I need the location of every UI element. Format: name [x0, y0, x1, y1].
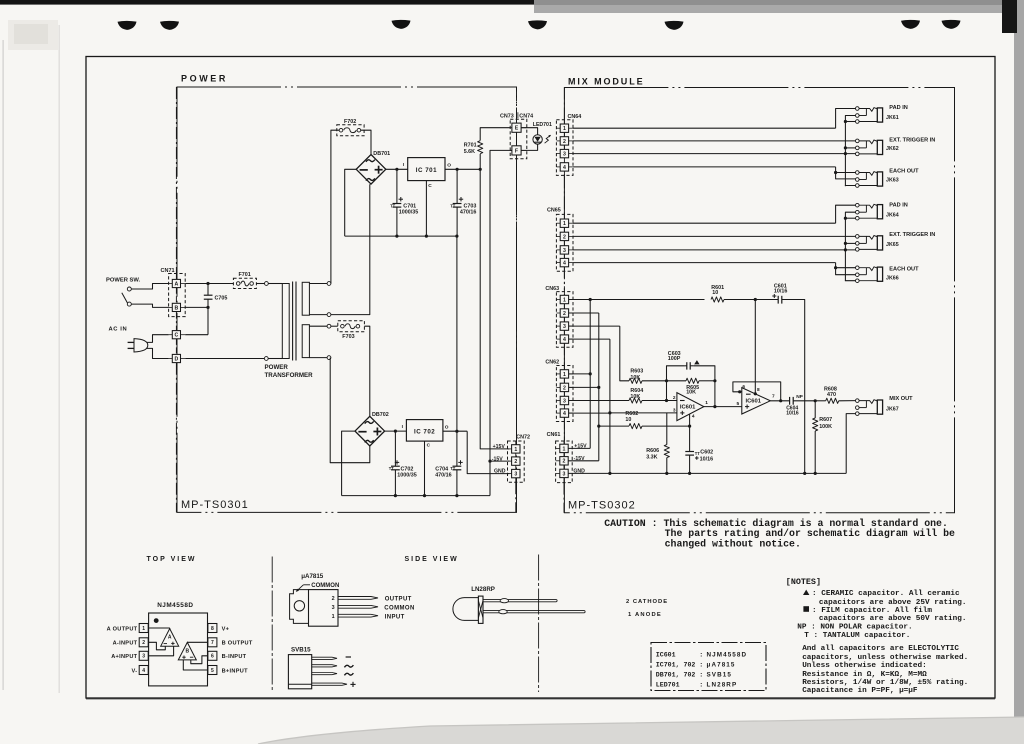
CN72 pin 1 [512, 445, 520, 453]
connector CN71 contact B [172, 303, 180, 311]
svg-text:NP: NP [796, 394, 803, 400]
svg-text:2: 2 [563, 459, 566, 465]
svg-text:R607: R607 [819, 417, 832, 423]
svg-text:MP-TS0301: MP-TS0301 [181, 499, 249, 511]
svg-text:V+: V+ [222, 626, 230, 632]
wire plug to CN71-D [147, 348, 169, 358]
wire CN63-2 to -15V line [569, 312, 599, 314]
wire secondary-1b to DB701 AC input [331, 184, 370, 314]
svg-text:10/16: 10/16 [774, 289, 788, 295]
outer frame border [86, 57, 995, 699]
svg-text:MIX MODULE: MIX MODULE [568, 77, 645, 87]
svg-text::: : [699, 651, 703, 658]
ground rail of +15V supply [345, 235, 457, 237]
wire IC601b output [770, 400, 789, 402]
svg-text:JK67: JK67 [886, 407, 899, 413]
svg-text:7: 7 [772, 393, 775, 399]
svg-text:capacitors are above 50V ratin: capacitors are above 50V rating. [819, 615, 967, 623]
svg-text:2: 2 [563, 385, 566, 391]
svg-text:SIDE VIEW: SIDE VIEW [405, 556, 459, 563]
IC601b feedback loop [740, 391, 742, 393]
CN65 pin 4 [560, 258, 568, 266]
svg-text:5: 5 [737, 401, 740, 407]
svg-text:2: 2 [673, 395, 676, 401]
CN72 pin 3 [512, 469, 520, 477]
svg-text:3: 3 [563, 324, 566, 330]
svg-text:A OUTPUT: A OUTPUT [107, 626, 138, 632]
ground distribution from CN63-4 [569, 338, 610, 340]
svg-text:JK64: JK64 [886, 213, 899, 219]
wire F / -15V down to CN72-2 [490, 150, 512, 495]
wire CN64-1 to JK61 tip [573, 127, 836, 129]
svg-text:C: C [428, 183, 432, 189]
svg-text:Capacitance in P=PF, μ=μF: Capacitance in P=PF, μ=μF [802, 687, 918, 695]
svg-text:R602: R602 [625, 411, 638, 417]
fuse F703 [338, 321, 365, 332]
CN62 pin 1 [560, 370, 568, 378]
svg-text:CN65: CN65 [547, 208, 561, 214]
CN63 pin 4 [560, 335, 568, 343]
svg-text:TRANSFORMER: TRANSFORMER [265, 372, 314, 379]
LN28RP anode lead [483, 611, 585, 613]
svg-text:EACH OUT: EACH OUT [889, 267, 919, 273]
svg-text:10: 10 [712, 290, 718, 296]
svg-text:1: 1 [563, 221, 566, 227]
transformer secondary terminals [309, 283, 327, 285]
CN63 pin 3 [560, 322, 568, 330]
wire CN64-4 to JK63 [573, 166, 836, 168]
capacitor C702 1000/35 [394, 431, 396, 466]
svg-text:C: C [427, 443, 431, 449]
svg-text:O: O [447, 162, 451, 168]
svg-text:NP : NON POLAR capacitor.: NP : NON POLAR capacitor. [797, 624, 912, 632]
wire F702 to DB701 AC input [361, 130, 371, 154]
svg-text::: : [699, 682, 703, 689]
svg-text:LN28RP: LN28RP [707, 682, 738, 689]
LN28RP die symbol [478, 601, 483, 619]
svg-text:10/16: 10/16 [786, 410, 799, 416]
svg-text:T: T [453, 204, 456, 209]
capacitor C602 10/16 [689, 426, 691, 451]
connector CN72 dashed box [508, 441, 525, 482]
JK61 switch/sleeve to ground bus [845, 116, 855, 122]
svg-text:3: 3 [332, 605, 335, 611]
svg-text::: : [699, 671, 703, 678]
CN61 pin 3 [560, 469, 568, 477]
svg-text:LN28RP: LN28RP [471, 586, 495, 593]
wire DB702 minus to -15V rail [342, 431, 355, 496]
CN62 pin 2 [560, 383, 568, 391]
scan artifact: left smudge [8, 20, 58, 50]
svg-text:IC 701: IC 701 [416, 167, 437, 174]
-15V rail [342, 495, 490, 497]
NJM4558D left pins 1-4 [139, 624, 148, 633]
svg-text:E: E [515, 126, 519, 132]
jack JK66 EACH OUT [856, 266, 860, 270]
svg-text:μA7815: μA7815 [301, 573, 324, 580]
LN28RP LED body [453, 598, 479, 621]
svg-text:DB701: DB701 [373, 151, 390, 157]
svg-text:A: A [168, 635, 172, 641]
svg-text:T: T [391, 466, 394, 471]
svg-text:1: 1 [705, 400, 708, 406]
svg-text:PAD IN: PAD IN [889, 203, 908, 209]
CN62 pin 4 [560, 409, 568, 417]
power module border MP-TS0301 [177, 87, 517, 512]
connector contact E [512, 123, 521, 132]
svg-text:F703: F703 [342, 334, 354, 340]
svg-text:TOP VIEW: TOP VIEW [147, 556, 197, 563]
capacitor C701 1000/35 [396, 169, 398, 203]
CN65 pin 3 [560, 246, 568, 254]
svg-text:3.3K: 3.3K [646, 454, 657, 460]
capacitor C703 470/16 [456, 169, 458, 203]
svg-text:R606: R606 [646, 448, 659, 454]
NJM4558D right pins 8-5 [208, 624, 217, 633]
wire CN65-2 to JK65 tip [573, 235, 856, 237]
svg-text:1: 1 [563, 297, 566, 303]
CN63 pin 2 [560, 309, 568, 317]
CN61 pin 1 [560, 444, 568, 452]
connector CN62 dashed box [556, 366, 573, 422]
op-amp B wiring [187, 641, 208, 643]
svg-text:EXT. TRIGGER IN: EXT. TRIGGER IN [889, 232, 935, 238]
IC601 pin4 -15V with C602 [689, 414, 691, 426]
svg-text:LED701: LED701 [656, 682, 680, 689]
wire C601 to ground drop [782, 300, 805, 474]
+15V distribution from CN61-1 [568, 447, 590, 449]
svg-text:1000/35: 1000/35 [399, 210, 419, 216]
scan artifact: top black bar [0, 0, 534, 5]
uA7815 body [309, 590, 339, 627]
svg-text:And all capacitors are ELECTOL: And all capacitors are ELECTOLYTIC [802, 645, 959, 653]
scan artifact: punch mark [942, 20, 961, 29]
svg-text:F702: F702 [344, 119, 356, 125]
+15V supply to IC601 pin8 [754, 300, 756, 394]
wire switch to CN71-A [131, 284, 168, 290]
module boundary line through CN72/CN73 [516, 87, 518, 123]
svg-text:V-: V- [132, 668, 138, 674]
connector CN73/CN74 dashed box [510, 119, 527, 159]
CN65 pin 2 [560, 232, 568, 240]
svg-text:OUTPUT: OUTPUT [385, 597, 412, 603]
svg-text:4: 4 [692, 413, 695, 419]
wire CN71-B junction [185, 306, 208, 308]
svg-text:GND: GND [494, 469, 506, 475]
svg-text:JK62: JK62 [886, 146, 899, 152]
scan artifact: bottom gray band [258, 717, 1024, 744]
-15V distribution from CN61-2 [568, 460, 599, 462]
svg-text:B+INPUT: B+INPUT [222, 668, 248, 674]
jack JK62 EXT.TRIGGER IN [856, 139, 860, 143]
svg-text:EACH OUT: EACH OUT [889, 168, 919, 174]
svg-text:COMMON: COMMON [311, 583, 339, 589]
op-amp A wiring [148, 627, 170, 629]
svg-text:10K: 10K [686, 390, 696, 396]
scan artifact: top-right gray band [534, 0, 1024, 13]
svg-text:2: 2 [563, 234, 566, 240]
JK64 switch/sleeve to ground bus [845, 212, 855, 218]
svg-text:DB701, 702: DB701, 702 [656, 671, 696, 678]
wire CN65-4 to JK66 [573, 262, 836, 264]
svg-text:4: 4 [563, 337, 566, 343]
svg-text:JK63: JK63 [886, 178, 899, 184]
connector contact F [512, 146, 521, 155]
wire IC601a output to IC601b [704, 406, 742, 408]
ground feed to CN72-3 [456, 236, 458, 431]
notes film [803, 606, 809, 612]
svg-text:D: D [175, 356, 179, 362]
wire CN71-C to B [185, 334, 208, 336]
wire IC702 common to -15V rail [424, 441, 426, 496]
IC package NJM4558D body [149, 613, 208, 686]
svg-text:COMMON: COMMON [384, 606, 414, 612]
boundary line through CN72 pins [515, 441, 517, 445]
wire CN62-3 to R604 [569, 400, 629, 402]
CN62 pin4 / op-amp + input line [569, 412, 610, 414]
SVB15 polarity symbols [346, 656, 351, 658]
svg-text:B-INPUT: B-INPUT [222, 654, 247, 660]
JK62 switch to ground bus [845, 147, 855, 149]
CN64 pin 1 [560, 124, 568, 132]
svg-text:capacitors are above 25V ratin: capacitors are above 25V rating. [819, 599, 967, 607]
svg-text:2 CATHODE: 2 CATHODE [626, 599, 668, 605]
svg-text:INPUT: INPUT [385, 614, 405, 620]
connector CN71 contact C [172, 331, 180, 339]
panel divider 1 [271, 557, 273, 693]
LED light arrow [545, 135, 551, 143]
op-amp IC601a [677, 393, 704, 421]
jack JK65 EXT. TRIGGER IN [856, 235, 860, 239]
panel divider 2 [538, 555, 540, 693]
svg-text:C602: C602 [700, 450, 713, 456]
svg-text:changed without notice.: changed without notice. [665, 539, 801, 550]
scan artifact: punch mark [118, 21, 137, 30]
svg-text:100P: 100P [668, 356, 681, 362]
svg-text:μA7815: μA7815 [707, 661, 736, 668]
CN64 pin 3 [560, 149, 568, 157]
svg-text:470: 470 [827, 392, 836, 398]
capacitor C704 470/16 [456, 431, 458, 466]
wire +15V down to CN72-1 [480, 169, 509, 449]
scan artifact: punch mark [901, 20, 920, 29]
wire DB702 plus to IC702 input [385, 430, 407, 432]
svg-text:5.6K: 5.6K [464, 149, 475, 155]
CN61 pin 2 [560, 457, 568, 465]
wire F701 to transformer [256, 283, 264, 285]
jack JK67 MIX OUT [856, 399, 860, 403]
svg-text:CN72: CN72 [516, 435, 530, 441]
svg-text:O: O [445, 424, 449, 430]
svg-text:CN62: CN62 [545, 360, 559, 366]
svg-text:T: T [393, 204, 396, 209]
svg-text:R603: R603 [630, 368, 643, 374]
regulator IC702 [406, 420, 443, 442]
svg-text:2: 2 [332, 596, 335, 602]
CN72 pin 2 [512, 457, 520, 465]
svg-text:1 ANODE: 1 ANODE [628, 612, 662, 618]
svg-text:1: 1 [563, 372, 566, 378]
svg-text:JK61: JK61 [886, 115, 899, 121]
parts table [651, 643, 766, 691]
svg-text:Resistance in Ω, K=KΩ, M=MΩ: Resistance in Ω, K=KΩ, M=MΩ [802, 671, 927, 679]
CN62 pin 3 [560, 396, 568, 404]
svg-text:3: 3 [563, 152, 566, 158]
CN64 pin 2 [560, 137, 568, 145]
wire LED to contact F [521, 144, 538, 150]
capacitor C705 [207, 284, 209, 296]
svg-text:R604: R604 [630, 388, 643, 394]
wire switch to CN71-B [131, 304, 168, 307]
wire CN71-D to transformer [185, 358, 264, 360]
svg-text:+15V: +15V [493, 444, 506, 450]
wire CN63-3 to R603 [569, 325, 620, 327]
svg-text:JK66: JK66 [886, 276, 899, 282]
svg-text:F: F [515, 148, 518, 154]
svg-text:10/16: 10/16 [700, 456, 714, 462]
wire CN65-3 ground to JK65 sleeve [573, 249, 856, 251]
op-amp IC601b [742, 388, 771, 414]
svg-text:NJM4558D: NJM4558D [707, 651, 748, 658]
svg-text:IC601: IC601 [656, 651, 676, 658]
svg-text:T : TANTALUM capacitor.: T : TANTALUM capacitor. [804, 632, 910, 640]
svg-text:LED701: LED701 [533, 122, 552, 128]
wire CN64-2 to JK62 tip [573, 140, 856, 142]
svg-text::: : [699, 661, 703, 668]
SVB15 body [288, 655, 311, 689]
wire CN71-A to F701 [185, 283, 233, 285]
svg-text:3: 3 [563, 248, 566, 254]
svg-text:The parts rating and/or schema: The parts rating and/or schematic diagra… [665, 528, 955, 539]
wire DB701 plus to IC701 input [386, 168, 408, 170]
mix boundary dash-dot segments [563, 88, 565, 120]
scan artifact: right page-edge gray strip [1014, 0, 1024, 744]
svg-text:AC IN: AC IN [109, 327, 128, 333]
svg-text:B OUTPUT: B OUTPUT [222, 641, 253, 647]
svg-text:C705: C705 [215, 295, 228, 301]
jack JK64 PAD IN [856, 203, 860, 207]
svg-text:CN64: CN64 [568, 114, 582, 120]
CN62 pin2 stub to -15V [569, 386, 599, 388]
svg-text:[NOTES]: [NOTES] [786, 577, 821, 587]
module boundary line through CN71 [175, 87, 177, 279]
connector CN71 contact D [172, 354, 180, 362]
connector CN71 contact A [172, 279, 180, 287]
svg-text:CN61: CN61 [547, 432, 561, 438]
svg-text:6: 6 [742, 384, 745, 390]
wire secondary-1a up to F702 [331, 130, 339, 283]
svg-text:JK65: JK65 [886, 242, 899, 248]
svg-text:capacitors, unless otherwise m: capacitors, unless otherwise marked. [802, 654, 968, 662]
wire DB701 minus to ground rail [345, 169, 357, 236]
wire IC701 output +15V [445, 168, 480, 170]
wire CN63-1 +15V line to R601 [569, 299, 705, 301]
svg-text:3: 3 [563, 471, 566, 477]
svg-text:5: 5 [211, 668, 214, 674]
svg-text:A: A [175, 281, 179, 287]
svg-text:C: C [175, 333, 179, 339]
svg-text:470/16: 470/16 [435, 472, 452, 478]
svg-text:3: 3 [142, 654, 145, 660]
svg-text:B: B [175, 305, 179, 311]
JK65 switch to ground bus [845, 242, 855, 244]
svg-text:2: 2 [563, 139, 566, 145]
scan artifact: punch mark [160, 21, 179, 30]
ground rail of mix module [568, 472, 846, 474]
svg-text:4: 4 [563, 411, 566, 417]
svg-text:1: 1 [563, 446, 566, 452]
CN62 pin1 stub to +15V [569, 373, 591, 375]
svg-text:IC 702: IC 702 [414, 429, 435, 436]
power switch S1 [127, 287, 131, 291]
svg-text:F701: F701 [239, 272, 251, 278]
svg-text:CN71: CN71 [161, 268, 175, 274]
svg-text:B: B [185, 649, 189, 655]
op-amp A symbol [161, 629, 179, 647]
connector CN64 dashed box [556, 120, 573, 176]
svg-text:: FILM capacitor. All film: : FILM capacitor. All film [812, 607, 932, 615]
notes ceramic [803, 590, 809, 595]
svg-text:-15V: -15V [492, 456, 503, 462]
svg-text:T: T [453, 466, 456, 471]
feedback loop around IC601a [667, 366, 685, 381]
svg-text:4: 4 [563, 261, 566, 267]
svg-text:NJM4558D: NJM4558D [157, 602, 193, 609]
AC plug [134, 339, 148, 352]
wire plug to CN71-C [147, 335, 169, 343]
svg-text:POWER SW.: POWER SW. [106, 278, 141, 284]
scan artifact: punch mark [665, 21, 684, 30]
svg-text:EXT. TRIGGER IN: EXT. TRIGGER IN [889, 137, 935, 143]
connector CN65 dashed box [556, 214, 573, 271]
wire secondary-2b to DB702 AC input [330, 358, 370, 463]
CN65 pin 1 [560, 219, 568, 227]
wire IC702 output to ground [443, 430, 467, 432]
summing node vertical [666, 381, 668, 401]
svg-text:A-INPUT: A-INPUT [113, 641, 138, 647]
connector CN71 dashed box [169, 274, 186, 317]
svg-text:7: 7 [211, 640, 214, 646]
scan artifact: punch mark [392, 20, 411, 29]
svg-text:CAUTION : This schematic diagr: CAUTION : This schematic diagram is a no… [604, 518, 948, 529]
ground bus jacks group2 [844, 218, 846, 281]
ground riser to JK67 sleeve [846, 414, 855, 474]
svg-text:3: 3 [514, 472, 517, 478]
svg-text:PAD IN: PAD IN [889, 105, 908, 111]
svg-text:2: 2 [514, 459, 517, 465]
scan artifact: punch mark [528, 20, 547, 29]
svg-text:IC601: IC601 [745, 399, 761, 405]
svg-text:1: 1 [332, 614, 335, 620]
svg-text:4: 4 [142, 668, 145, 674]
mix module border MP-TS0302 [564, 88, 954, 513]
wire CN65-1 to JK64 tip [573, 222, 836, 224]
uA7815 leads [338, 597, 378, 600]
jack JK63 EACH OUT [856, 171, 860, 175]
svg-text:100K: 100K [819, 424, 832, 430]
svg-text:1: 1 [142, 626, 145, 632]
svg-text:10: 10 [625, 417, 631, 423]
connector CN63 dashed box [556, 292, 573, 348]
svg-text:: CERAMIC capacitor. All cera: : CERAMIC capacitor. All ceramic [812, 590, 960, 598]
svg-text:2: 2 [142, 640, 145, 646]
svg-text:SVB15: SVB15 [707, 671, 732, 678]
SVB15 leads [312, 657, 337, 659]
LN28RP cathode lead [483, 600, 557, 602]
power transformer T1 [282, 284, 289, 359]
svg-text:4: 4 [563, 165, 566, 171]
regulator IC701 [408, 158, 445, 181]
